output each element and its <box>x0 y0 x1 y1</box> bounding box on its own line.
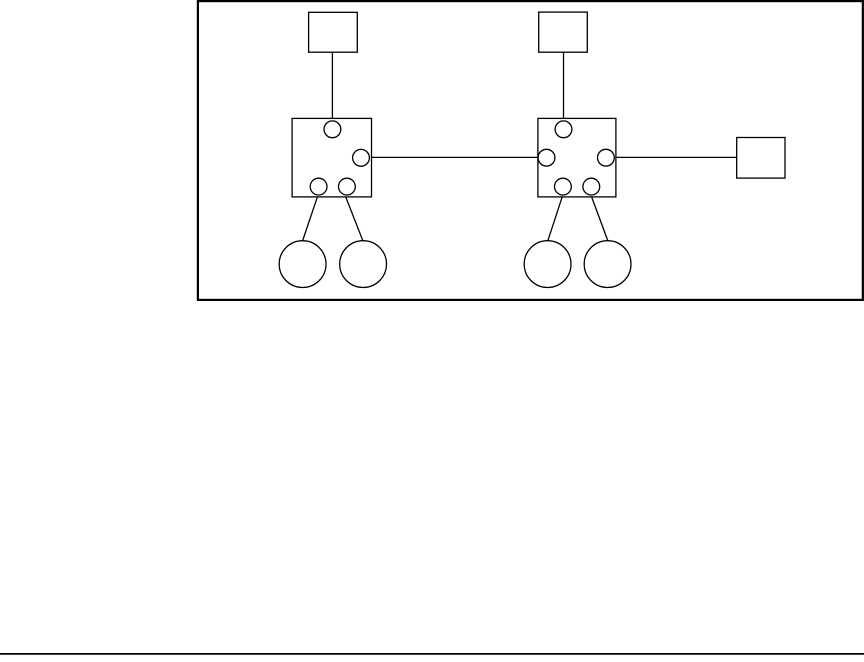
router box C <box>737 138 785 179</box>
host circle 1 <box>279 241 326 288</box>
bridge 1 port bottom-left <box>310 178 327 195</box>
bridge 1 <box>292 118 371 196</box>
uplink square A <box>309 12 358 52</box>
page footer rule <box>0 653 864 655</box>
host circle 3 <box>524 241 571 288</box>
wire bridge 2 to host 4 <box>592 197 608 241</box>
wire bridge 2 to host 3 <box>548 197 562 241</box>
uplink square B <box>539 12 588 52</box>
wire bridge 1 to host 1 <box>303 197 318 241</box>
wire A to bridge 1 <box>331 52 333 118</box>
wire bridge 2 to router C <box>616 156 737 158</box>
LAN boundary box <box>198 1 863 300</box>
host circle 2 <box>340 241 387 288</box>
bridge 2 port bottom-right <box>583 178 600 195</box>
bridge 1 port bottom-right <box>339 178 356 195</box>
bridge 2 port bottom-left <box>555 178 572 195</box>
wire bridge 1 to host 2 <box>346 197 363 241</box>
bridge 1 port top <box>324 121 341 138</box>
bridge 2 port top <box>555 121 572 138</box>
host circle 4 <box>584 241 631 288</box>
wire B to bridge 2 <box>563 52 565 118</box>
bridge 2 <box>538 118 616 196</box>
bridge 1 port right <box>353 149 370 166</box>
bridge 2 port right <box>598 149 615 166</box>
wire bridge 1 to bridge 2 <box>372 156 538 158</box>
bridge 2 port left <box>538 149 555 166</box>
